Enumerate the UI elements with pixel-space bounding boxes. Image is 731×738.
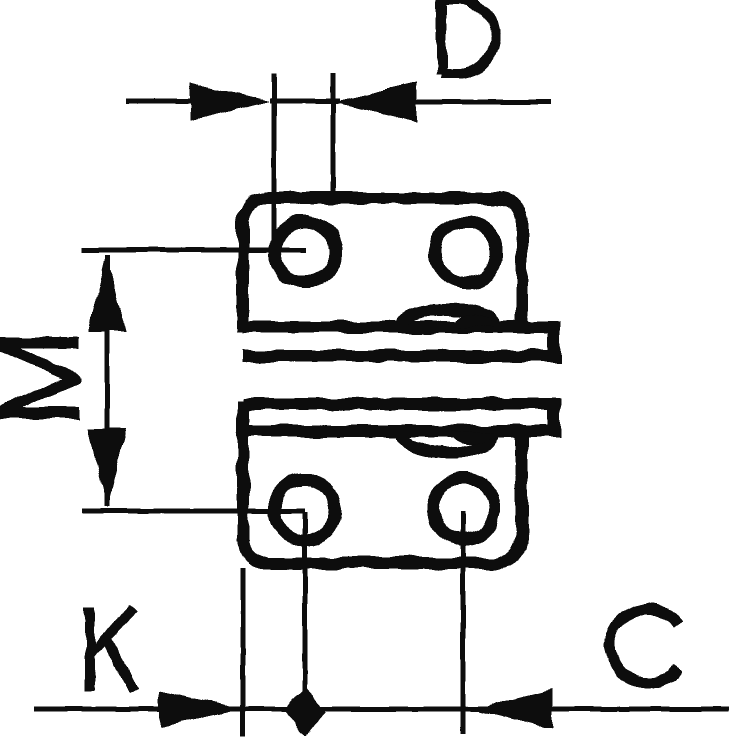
- letter C: [610, 609, 678, 684]
- lower hinge knuckle arc: [402, 434, 494, 453]
- upper plate outline: [243, 198, 522, 332]
- extension line M bottom to lower-left hole center: [82, 509, 305, 514]
- lower plate outline: [243, 400, 522, 563]
- hole bottom-left: [275, 480, 336, 541]
- arrowhead K pointing right: [159, 691, 241, 728]
- dimension line K/C bottom: [34, 707, 729, 712]
- lower knuckle right fill: [452, 431, 494, 443]
- upper knuckle right fill: [452, 315, 494, 327]
- extension line lower-right hole center: [461, 511, 466, 734]
- dimension line M vertical: [105, 255, 110, 506]
- hole bottom-right: [434, 479, 495, 540]
- letter D: [442, 0, 496, 75]
- extension line plate left edge bottom: [241, 568, 246, 736]
- arrowhead C pointing left: [473, 689, 553, 729]
- extension line M top to upper-left hole center: [82, 248, 306, 253]
- lower bar outline: [243, 404, 554, 431]
- extension line lower-left hole center: [303, 512, 308, 734]
- dimension line D left segment: [126, 99, 192, 104]
- hole top-left: [275, 222, 336, 283]
- arrowhead M pointing up: [88, 253, 126, 331]
- letter K: [90, 607, 134, 690]
- arrowhead D pointing left: [336, 83, 417, 122]
- letter M rotated: [0, 343, 79, 413]
- extension line D left at hole left edge: [272, 74, 277, 252]
- arrowhead D pointing right: [190, 82, 269, 121]
- upper hinge knuckle arc: [402, 309, 494, 324]
- diamond node at lower-left hole centerline: [283, 688, 327, 736]
- arrowhead M pointing down: [88, 429, 126, 508]
- hole top-right: [436, 222, 497, 283]
- extension line D right at hole right edge: [331, 73, 336, 196]
- dimension line D middle segment: [270, 99, 340, 104]
- upper bar outline: [243, 327, 554, 356]
- dimension line D right segment: [414, 100, 551, 105]
